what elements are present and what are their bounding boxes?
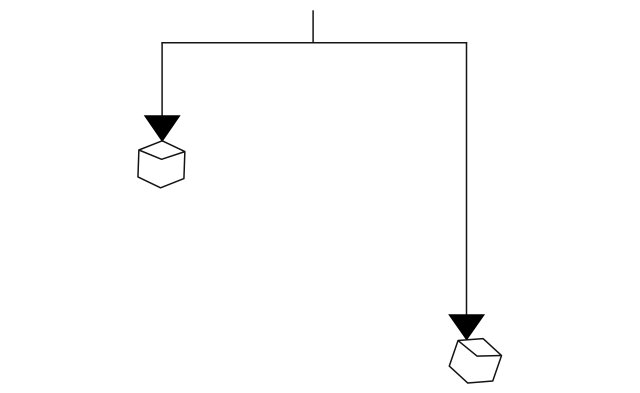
arrowhead: right (filled, pointing down) (449, 315, 484, 340)
node: right cube (hexagonal box, rotated 19deg) (446, 331, 505, 390)
wire: top vertical stem (312, 10, 314, 43)
wire: right vertical drop (466, 42, 468, 315)
wire: horizontal bus (161, 42, 467, 44)
arrowhead: left (filled, pointing down) (145, 116, 180, 142)
wire: left vertical drop (161, 42, 163, 116)
node: left cube (hexagonal box, rotated 2deg) (138, 140, 186, 189)
